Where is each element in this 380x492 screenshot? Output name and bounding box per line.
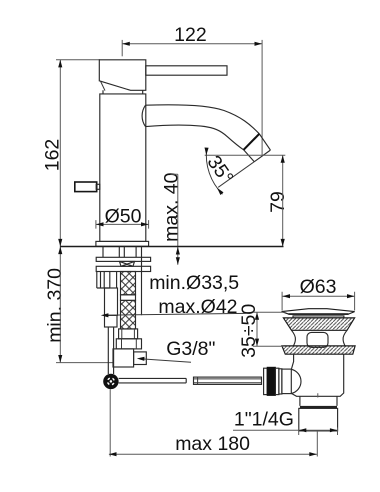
dim max 180 line	[109, 453, 317, 455]
svg-text:79: 79	[267, 191, 289, 213]
hose ferrule	[119, 329, 138, 339]
dim 122 line	[122, 43, 262, 45]
drain flange	[282, 346, 355, 354]
side knob	[75, 182, 97, 192]
base ring	[96, 241, 149, 246]
faucet head	[99, 60, 146, 91]
dim 35÷50 arrows	[255, 312, 259, 320]
svg-text:1"1/4G: 1"1/4G	[234, 409, 294, 431]
dim 79 line	[282, 155, 284, 246]
dim 35÷50 extensions	[253, 312, 285, 346]
head collar	[103, 90, 143, 94]
braided hose segment 1	[121, 272, 136, 295]
shank piece between plates	[120, 261, 135, 266]
spout inner curve	[146, 125, 244, 150]
35deg arc arrows	[205, 148, 209, 156]
under-deck tubes upper	[103, 247, 136, 258]
hose nut	[116, 339, 141, 349]
dim min.370 line	[59, 247, 61, 363]
left hose ferrule	[105, 288, 118, 315]
mounting plate 1	[96, 257, 150, 261]
dim 1"1/4G line	[233, 429, 338, 431]
braided hose clamp	[121, 295, 136, 301]
pull rod	[141, 247, 143, 316]
centerline below ball	[109, 389, 111, 456]
dim max.40 line	[171, 174, 178, 264]
dim 162 top extension	[56, 59, 100, 61]
dim max 180 arrows	[109, 452, 117, 456]
dim 35÷50 line	[256, 312, 258, 346]
drain inlet arc	[291, 369, 301, 393]
linkage rod 1	[119, 378, 187, 383]
dim 1"1/4G arrows	[299, 428, 307, 432]
drain centerline	[316, 393, 319, 456]
tubes below plate2	[97, 272, 117, 289]
drain tailpipe	[299, 408, 338, 431]
dim Ø63 arrows	[282, 294, 290, 298]
cap under ring	[293, 316, 344, 318]
dim Ø50 arrows	[96, 222, 104, 226]
faucet body	[100, 94, 146, 242]
svg-text:min.Ø33,5: min.Ø33,5	[149, 272, 239, 294]
knurled connector	[264, 368, 268, 394]
dim Ø50 line	[96, 220, 149, 229]
ball joint	[103, 374, 118, 389]
dim min.370 arrows	[58, 247, 62, 255]
G3/8 leader	[140, 359, 191, 363]
dim 162 line	[59, 60, 61, 247]
lever handle	[146, 66, 227, 75]
spout outer curve	[146, 105, 260, 134]
svg-text:min. 370: min. 370	[44, 268, 66, 343]
drain neck	[300, 396, 337, 406]
svg-text:122: 122	[174, 24, 207, 46]
dim max.40 arrows	[176, 247, 180, 255]
leader for hose labels	[106, 313, 246, 315]
spout end face / 35deg construction line	[254, 150, 270, 162]
35deg arc	[206, 148, 222, 194]
svg-text:G3/8": G3/8"	[166, 338, 215, 360]
dim 162 arrows	[58, 60, 62, 68]
spout tip outer edge	[259, 134, 270, 150]
drain cap	[282, 309, 355, 314]
35deg horizontal arm	[205, 154, 286, 156]
riser tube to ball	[108, 327, 113, 374]
drain body	[291, 354, 343, 396]
mounting plate 2	[96, 266, 150, 271]
aerator line	[244, 134, 260, 150]
dim Ø63 extensions	[282, 292, 355, 311]
waist window	[307, 332, 328, 347]
drain waist	[292, 330, 348, 346]
linkage rod 2	[194, 377, 262, 384]
dim 122 right extension	[261, 40, 263, 155]
G3/8 elbow fitting	[113, 349, 134, 367]
dim min.370 bottom extension	[56, 362, 114, 364]
spout tip inner edge	[244, 150, 255, 162]
dim Ø63 line	[282, 295, 354, 297]
drain cone	[283, 318, 354, 330]
dim 122 left extension	[121, 40, 123, 56]
svg-text:max. 40: max. 40	[161, 172, 183, 242]
svg-text:max 180: max 180	[175, 433, 250, 455]
dim 122 arrows	[122, 42, 130, 46]
countertop line	[60, 246, 283, 248]
svg-text:Ø63: Ø63	[300, 276, 337, 298]
braided hose segment 2	[121, 300, 136, 329]
dim 79 arrows	[281, 155, 285, 163]
